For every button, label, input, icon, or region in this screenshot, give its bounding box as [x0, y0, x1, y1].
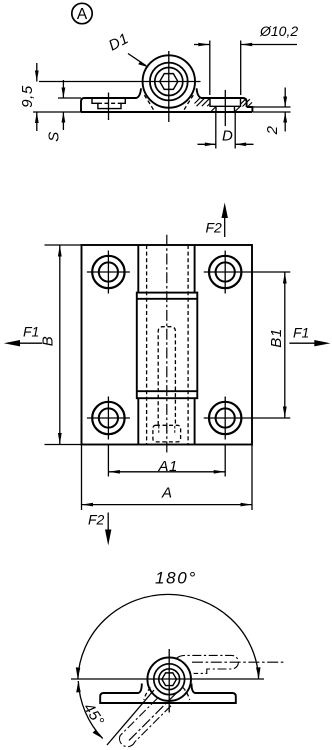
extension line 2 top — [253, 106, 291, 108]
dim B — [40, 245, 82, 445]
phantom leaf open 180deg — [177, 655, 287, 673]
hidden slot line — [98, 102, 121, 104]
slot recess on left plate — [92, 99, 125, 109]
svg-text:180°: 180° — [155, 569, 197, 588]
svg-text:F2: F2 — [206, 220, 223, 236]
svg-text:D: D — [222, 128, 233, 145]
svg-text:A1: A1 — [158, 458, 178, 475]
pivot inner circle — [155, 68, 183, 96]
view label A — [72, 3, 92, 23]
45deg swing arc — [78, 681, 102, 739]
dim D — [198, 113, 254, 149]
dim 2 — [264, 88, 287, 136]
knuckle solid edges top — [137, 245, 139, 293]
svg-text:F1: F1 — [293, 325, 309, 341]
force arrow F1 right — [289, 325, 330, 347]
hinge pivot boss outer circle — [143, 55, 195, 107]
hole centerline — [224, 90, 226, 126]
knuckle hidden lines — [146, 245, 148, 445]
svg-text:B: B — [40, 336, 57, 347]
pivot outer circle — [147, 657, 191, 701]
svg-text:F2: F2 — [88, 512, 105, 528]
dim 9,5 — [19, 63, 81, 131]
hatching left — [195, 98, 216, 111]
slot centerline — [108, 93, 110, 121]
hinge body rectangle — [82, 245, 253, 445]
hole top-left — [87, 251, 130, 294]
svg-text:A: A — [77, 6, 88, 23]
right plate boss top — [197, 88, 247, 107]
hatching right — [235, 98, 252, 111]
pivot inner circle — [159, 669, 180, 690]
pivot horizontal centerline with extensions — [71, 678, 264, 680]
dim B1 — [268, 272, 287, 418]
hidden fillet left — [144, 688, 151, 700]
wire: pivot vertical centerline — [168, 51, 170, 122]
pivot vertical centerline — [168, 649, 170, 713]
wire: pivot horizontal centerline — [39, 81, 201, 83]
phantom leaf at 45deg — [120, 693, 177, 747]
svg-text:A: A — [161, 485, 173, 502]
central axis centerline — [166, 235, 168, 454]
hole top-right — [204, 251, 291, 294]
hidden fillet right — [183, 688, 190, 700]
fixed plate left part — [100, 684, 236, 704]
180deg swing arc — [78, 594, 259, 679]
countersink bore — [210, 98, 241, 106]
middle leaf sleeve — [137, 293, 198, 399]
through hole — [216, 106, 235, 112]
hidden fillet right — [183, 95, 193, 111]
svg-text:S: S — [46, 131, 63, 142]
label D1 with leader — [106, 30, 149, 67]
hidden fillet left — [144, 95, 154, 111]
svg-text:2: 2 — [264, 125, 281, 135]
hidden nut — [153, 425, 181, 442]
force arrow F2 top — [206, 203, 228, 238]
pivot middle circle — [150, 63, 188, 101]
extension line 2 bottom — [253, 111, 291, 113]
pivot middle circle — [154, 664, 185, 695]
dim Ø10,2 — [194, 23, 298, 95]
hole bottom-left — [87, 397, 130, 440]
svg-text:9,5: 9,5 — [19, 85, 36, 108]
force arrow F1 left — [4, 324, 42, 347]
left plate outline — [81, 88, 141, 112]
svg-text:B1: B1 — [268, 328, 285, 347]
hidden pin — [158, 327, 175, 425]
dim S — [46, 80, 82, 142]
dim A — [82, 445, 253, 511]
hole bottom-right — [204, 397, 291, 440]
svg-text:F1: F1 — [23, 324, 39, 340]
45deg leaf face extension line — [107, 690, 154, 745]
force arrow F2 bottom — [88, 512, 111, 546]
plate bottom edge — [81, 111, 252, 113]
svg-text:Ø10,2: Ø10,2 — [259, 23, 298, 39]
hex socket — [160, 74, 178, 90]
knuckle solid edges bottom — [137, 398, 139, 444]
right plate end surface — [247, 107, 253, 112]
hex socket — [162, 673, 177, 686]
dim A1 — [108, 445, 225, 477]
